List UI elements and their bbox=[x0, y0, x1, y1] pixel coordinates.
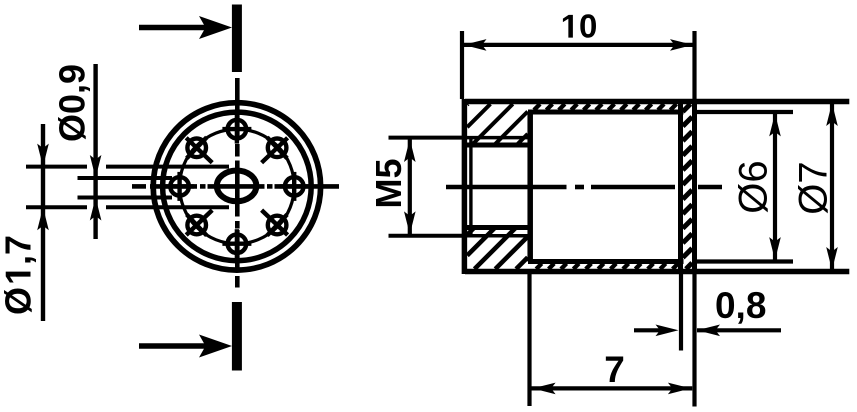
svg-text:,7: ,7 bbox=[0, 235, 39, 265]
svg-text:0,8: 0,8 bbox=[715, 285, 766, 326]
svg-text:0: 0 bbox=[579, 8, 597, 45]
svg-text:Ø7: Ø7 bbox=[792, 161, 836, 214]
svg-text:Ø0,9: Ø0,9 bbox=[52, 64, 93, 142]
svg-text:Ø6: Ø6 bbox=[732, 160, 776, 213]
svg-text:M5: M5 bbox=[368, 158, 409, 208]
svg-text:Ø: Ø bbox=[0, 287, 39, 315]
svg-text:7: 7 bbox=[604, 349, 625, 390]
